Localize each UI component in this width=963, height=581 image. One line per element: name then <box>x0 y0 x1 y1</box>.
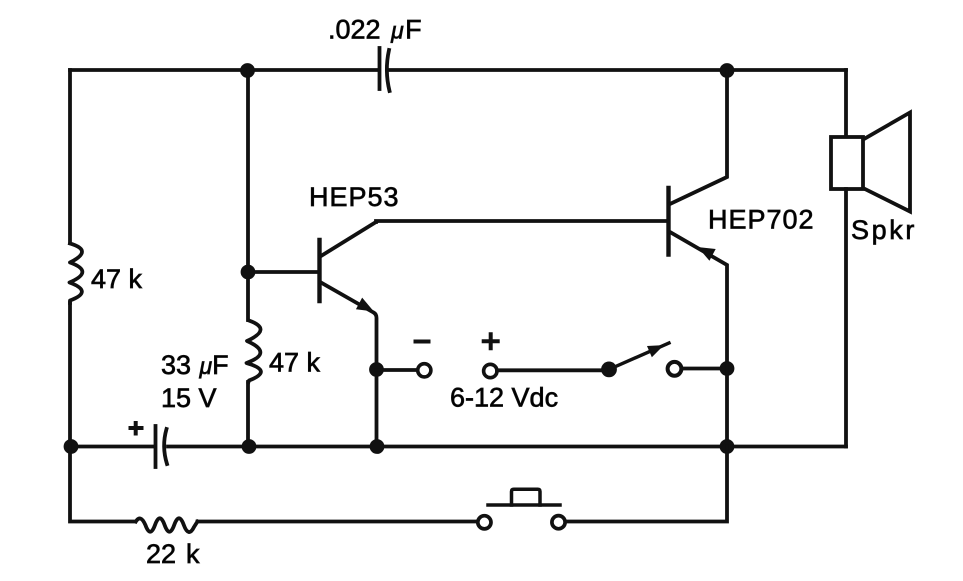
terminal plus circle <box>484 364 497 377</box>
wire mid vertical upper <box>246 70 250 320</box>
node rail left <box>64 439 79 454</box>
wire right vertical bottom <box>844 189 848 447</box>
wire bottom loop middle <box>198 520 477 524</box>
node rail mid <box>242 439 257 454</box>
node rail emitter <box>370 439 385 454</box>
wire main rail left of C2 <box>70 445 153 449</box>
svg-text:HEP702: HEP702 <box>708 205 815 235</box>
svg-text:47 k: 47 k <box>91 264 143 294</box>
wire bottom loop left <box>70 447 135 522</box>
wire Q1 collector to Q2 base <box>376 221 667 222</box>
node emitter junction <box>369 362 384 377</box>
switch S1 arrowhead <box>648 346 662 356</box>
svg-text:6-12 Vdc: 6-12 Vdc <box>450 383 558 413</box>
label plus sign <box>484 334 498 348</box>
svg-text:Spkr: Spkr <box>851 215 917 245</box>
node Q1 base junction <box>241 265 256 280</box>
switch S1 contact circle <box>668 362 682 376</box>
svg-text:22 k: 22 k <box>146 539 200 569</box>
svg-text:47 k: 47 k <box>269 348 321 378</box>
svg-text:15 V: 15 V <box>161 383 217 413</box>
label C2 plus sign <box>131 423 142 434</box>
capacitor C2 33uF plates <box>154 426 158 467</box>
speaker SPK1 <box>831 113 910 212</box>
svg-text:33 μF: 33 μF <box>161 350 229 380</box>
pushbutton S2 right contact <box>552 516 565 529</box>
node top-left junction <box>240 63 255 78</box>
wire mid vertical lower <box>246 382 250 447</box>
resistor R3 22k <box>136 518 198 532</box>
switch S1 arm <box>609 343 669 369</box>
wire bottom loop right <box>567 447 727 522</box>
transistor Q1 HEP53 <box>255 222 377 447</box>
label minus sign <box>416 340 429 344</box>
capacitor C1 .022uF plates <box>378 48 382 89</box>
terminal minus circle <box>418 364 431 377</box>
wire switch to emitter line <box>682 367 720 371</box>
wire left vertical upper <box>68 70 72 243</box>
svg-text:HEP53: HEP53 <box>309 182 400 212</box>
resistor R2 47k <box>247 321 261 383</box>
switch S1 pivot dot <box>601 362 617 378</box>
wire top rail right segment <box>389 68 847 72</box>
wire main rail right of C2 <box>168 445 846 449</box>
pushbutton S2 cap <box>512 489 541 505</box>
node top-right junction <box>720 63 735 78</box>
resistor R1 47k <box>70 244 83 304</box>
wire left vertical lower <box>68 303 72 447</box>
node switch junction <box>720 361 735 376</box>
pushbutton S2 bar <box>488 503 560 507</box>
transistor Q2 HEP702 <box>669 70 728 447</box>
node rail right <box>720 439 735 454</box>
pushbutton S2 left contact <box>478 516 491 529</box>
wire plus terminal to switch <box>497 368 603 372</box>
wire to minus terminal <box>377 368 417 372</box>
wire top rail left segment <box>70 68 377 72</box>
svg-text:.022 μF: .022 μF <box>328 15 422 45</box>
wire right vertical top <box>844 70 848 137</box>
